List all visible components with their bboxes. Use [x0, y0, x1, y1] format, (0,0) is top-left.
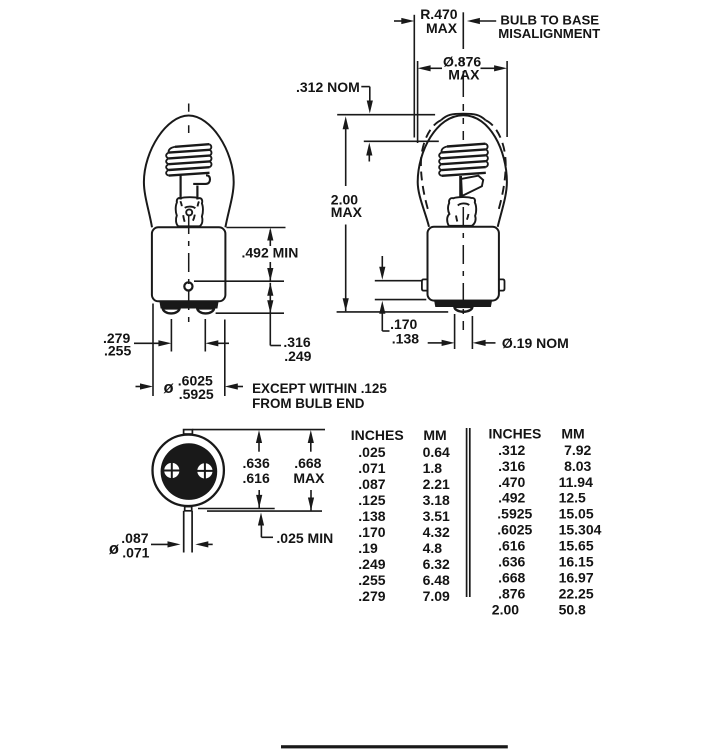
bayonet pin right side	[499, 279, 505, 290]
table right rows	[492, 442, 602, 618]
svg-text:.312: .312	[498, 442, 525, 458]
svg-text:6.32: 6.32	[423, 556, 450, 572]
svg-text:.636: .636	[498, 554, 525, 570]
filament coil left	[169, 144, 210, 175]
glass stem left	[176, 197, 203, 226]
extension line base-top plane	[227, 227, 286, 229]
LEFT-BULB-GROUP	[144, 104, 234, 330]
solder contact right	[454, 307, 472, 312]
BOTTOM-VIEW-GROUP	[153, 430, 224, 553]
svg-text:.255: .255	[104, 343, 131, 359]
coil end loops right	[439, 144, 488, 176]
dim R.470 MAX	[413, 15, 415, 138]
dim dia .876 MAX	[417, 61, 419, 143]
shell outline bottom view	[153, 435, 224, 506]
svg-text:MAX: MAX	[293, 470, 325, 486]
svg-text:3.18: 3.18	[423, 492, 450, 508]
svg-text:.19: .19	[358, 540, 378, 556]
svg-text:.492 MIN: .492 MIN	[242, 245, 299, 261]
svg-text:.071: .071	[358, 460, 385, 476]
bulb-top plane line	[337, 114, 435, 116]
footer rule	[281, 745, 508, 748]
svg-text:.616: .616	[498, 538, 525, 554]
svg-text:7.09: 7.09	[423, 588, 450, 604]
svg-text:16.15: 16.15	[559, 554, 594, 570]
svg-text:.170: .170	[390, 316, 417, 332]
bulb misalignment dashed right	[486, 120, 506, 212]
svg-text:MAX: MAX	[331, 204, 363, 220]
svg-text:.255: .255	[358, 572, 385, 588]
svg-text:INCHES: INCHES	[489, 426, 542, 442]
svg-text:4.8: 4.8	[423, 540, 443, 556]
svg-text:MAX: MAX	[426, 20, 458, 36]
dim .279 .255	[170, 319, 172, 352]
svg-text:50.8: 50.8	[559, 601, 586, 617]
svg-text:12.5: 12.5	[559, 490, 586, 506]
svg-text:.316: .316	[498, 458, 525, 474]
support hook flag right	[461, 176, 483, 196]
coil end loops left	[166, 144, 211, 175]
RIGHT-BULB-GROUP	[418, 12, 507, 330]
svg-text:.025: .025	[358, 444, 385, 460]
svg-text:MISALIGNMENT: MISALIGNMENT	[498, 26, 600, 41]
dim .492 MIN	[267, 228, 273, 241]
svg-text:8.03: 8.03	[564, 458, 591, 474]
centerline left bulb upper	[188, 104, 190, 134]
svg-text:4.32: 4.32	[423, 524, 450, 540]
contact eyelet right	[197, 463, 212, 478]
bulb misalignment crown arc	[441, 114, 486, 121]
svg-text:.5925: .5925	[179, 386, 214, 402]
svg-text:6.48: 6.48	[423, 572, 450, 588]
svg-text:.249: .249	[358, 556, 385, 572]
bulb envelope left	[144, 116, 234, 228]
bayonet pin (front) left	[184, 282, 192, 290]
dim .316 .249	[267, 283, 273, 296]
svg-text:7.92: 7.92	[564, 442, 591, 458]
top tangent line	[192, 429, 325, 431]
svg-text:.249: .249	[284, 348, 311, 364]
extension line pin-center plane	[194, 280, 284, 282]
glass disc bottom view	[161, 443, 218, 500]
RIGHT-DIMENSIONS	[296, 6, 600, 351]
svg-text:.025 MIN: .025 MIN	[276, 530, 333, 546]
centerline right bulb upper	[462, 58, 464, 140]
svg-text:.170: .170	[358, 524, 385, 540]
svg-text:.6025: .6025	[497, 522, 532, 538]
svg-text:15.304: 15.304	[559, 522, 602, 538]
centerline right bulb lower	[462, 207, 464, 330]
stem tick marks right	[456, 203, 469, 221]
CONVERSION-TABLE	[351, 426, 602, 618]
dim 2.00 MAX	[343, 116, 349, 129]
centerline left bulb lower	[188, 215, 190, 329]
exhaust tube lines	[183, 511, 185, 553]
svg-text:.138: .138	[392, 330, 419, 346]
svg-text:.470: .470	[498, 474, 525, 490]
svg-text:.492: .492	[498, 490, 525, 506]
svg-text:MM: MM	[561, 426, 584, 442]
bulb-end plane line	[337, 311, 449, 313]
stem bead circle left	[186, 209, 192, 215]
svg-text:.312 NOM: .312 NOM	[296, 79, 360, 95]
svg-text:16.97: 16.97	[559, 570, 594, 586]
dim .025 MIN	[258, 513, 264, 526]
bayonet pin left side	[422, 279, 428, 290]
base shell right	[428, 227, 499, 301]
svg-text:1.8: 1.8	[423, 460, 443, 476]
svg-text:ø: ø	[164, 379, 174, 397]
glass stem right	[447, 197, 476, 226]
extension line bulb-end plane	[216, 312, 284, 314]
svg-text:0.64: 0.64	[423, 444, 450, 460]
bottom ref line .636	[198, 508, 275, 510]
bulb misalignment dashed left	[421, 120, 441, 212]
LEFT-DIMENSIONS	[103, 228, 387, 412]
svg-text:15.05: 15.05	[559, 506, 594, 522]
svg-text:MAX: MAX	[448, 67, 480, 83]
bottom ref line .668	[207, 510, 322, 512]
svg-text:.668: .668	[498, 570, 525, 586]
svg-text:.636: .636	[243, 455, 270, 471]
svg-text:2.00: 2.00	[492, 601, 519, 617]
filament leads left	[180, 176, 182, 200]
dim dia .6025 .5925	[152, 304, 154, 397]
svg-text:.125: .125	[358, 492, 385, 508]
svg-text:INCHES: INCHES	[351, 427, 404, 443]
table left rows	[358, 444, 450, 604]
svg-text:.668: .668	[294, 455, 321, 471]
dim .668 MAX	[308, 430, 314, 443]
pin tab bottom	[185, 507, 192, 511]
filament-top plane line	[364, 140, 439, 142]
support hook left	[193, 175, 210, 184]
svg-text:FROM BULB END: FROM BULB END	[252, 396, 365, 411]
table separator double line	[466, 428, 468, 597]
insulator band right	[434, 300, 492, 307]
svg-text:.087: .087	[358, 476, 385, 492]
svg-text:MM: MM	[423, 427, 446, 443]
contact eyelet left	[164, 463, 179, 478]
dim .636 .616	[256, 430, 262, 443]
svg-text:.279: .279	[358, 588, 385, 604]
svg-text:.5925: .5925	[497, 506, 532, 522]
base shell left	[152, 227, 226, 301]
pin tab top	[184, 430, 193, 434]
svg-text:22.25: 22.25	[559, 585, 594, 601]
insulator band left	[159, 301, 218, 309]
filament support wire right	[459, 176, 462, 197]
svg-text:11.94: 11.94	[559, 474, 593, 490]
svg-text:.616: .616	[243, 470, 270, 486]
svg-text:.071: .071	[122, 545, 149, 561]
svg-text:EXCEPT WITHIN .125: EXCEPT WITHIN .125	[252, 381, 387, 396]
bulb envelope right solid	[418, 115, 507, 227]
dim .170 .138	[375, 280, 422, 282]
svg-text:ø: ø	[109, 540, 119, 558]
BOTTOM-VIEW-DIMENSIONS	[109, 430, 333, 561]
solder contacts left	[163, 308, 180, 313]
dim dia .19 NOM	[454, 314, 456, 349]
svg-text:3.51: 3.51	[423, 508, 450, 524]
svg-text:.876: .876	[498, 585, 525, 601]
svg-text:15.65: 15.65	[559, 538, 594, 554]
svg-text:.138: .138	[358, 508, 385, 524]
svg-text:Ø.19 NOM: Ø.19 NOM	[502, 335, 569, 351]
centerline right bulb solid top	[462, 12, 464, 49]
svg-text:2.21: 2.21	[423, 476, 450, 492]
stem tick marks left	[180, 201, 199, 222]
filament coil right	[442, 144, 486, 176]
